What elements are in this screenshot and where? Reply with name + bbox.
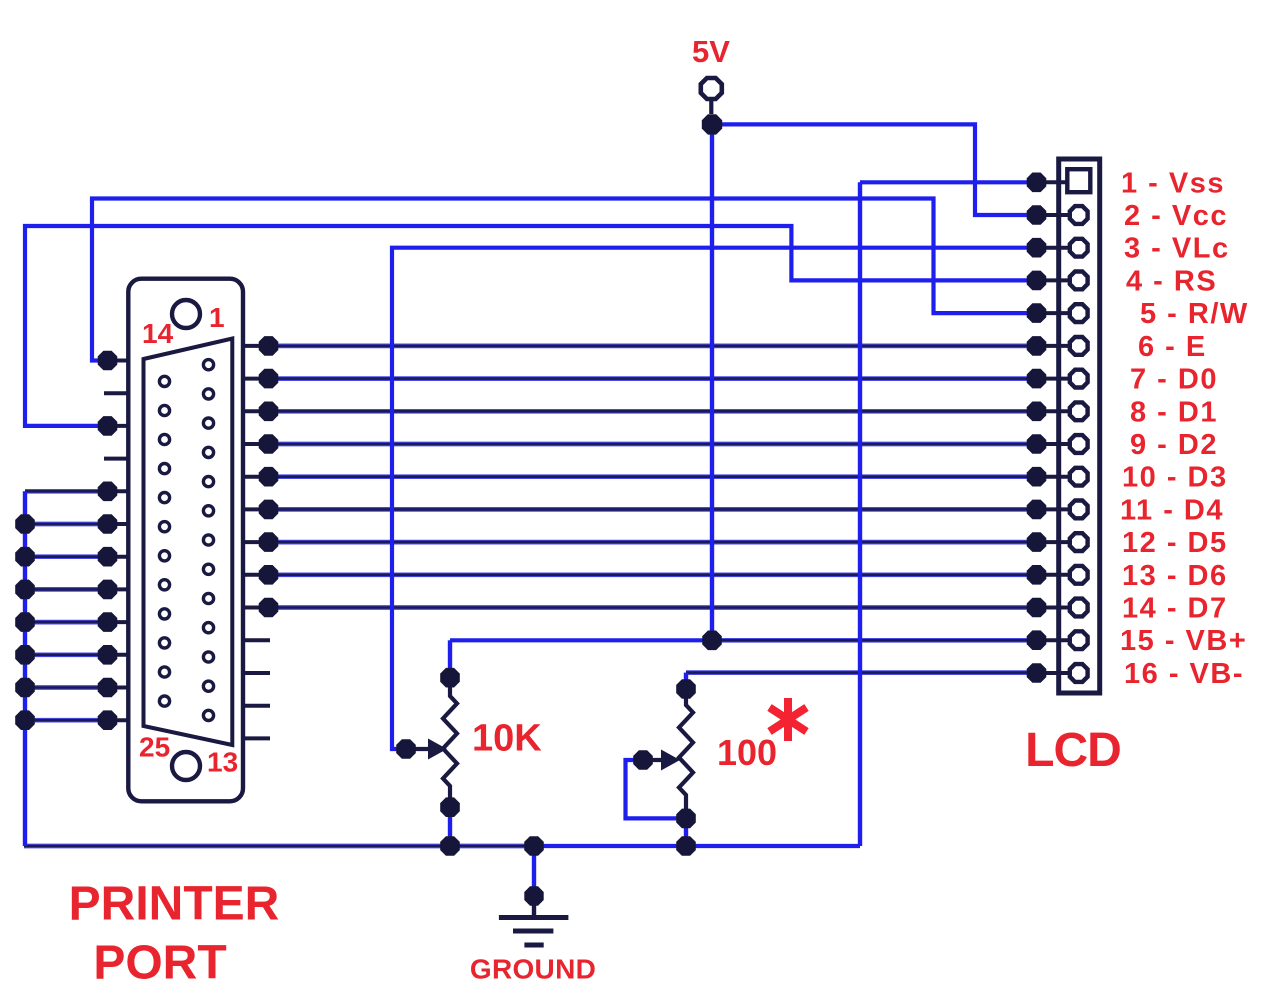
wire VB-: R2 top riser — [684, 673, 688, 689]
connector J1 DB25: pins 14-25 (left column) — [159, 376, 169, 706]
connector J2 LCD header: pads pins 2-16 — [1070, 206, 1088, 682]
wire R/W: DB25 pin 14 up and across to LCD pin 5 — [92, 199, 1037, 361]
wire VB-: 100 pot top to LCD pin 16 (horizontal) — [686, 670, 1037, 675]
svg-text:PRINTER: PRINTER — [69, 878, 280, 931]
junction dot 5V/VB+ node — [702, 631, 722, 651]
net GND: bus stub to DB25 pin 25 — [25, 718, 108, 723]
net GND: vertical from ground rail up to LCD pin 1 Vss — [858, 182, 862, 846]
net GND: bus stub to DB25 pin 18 — [25, 489, 108, 494]
connector J2 LCD header: pin 1 square pad — [1067, 169, 1090, 192]
wire E: DB25 pin 1 to LCD pin 6 — [269, 344, 1037, 349]
svg-text:4 - RS: 4 - RS — [1126, 265, 1217, 297]
svg-text:5V: 5V — [692, 34, 730, 69]
svg-text:14: 14 — [142, 318, 174, 349]
junction dots on R1 10K terminals and wiper — [396, 668, 460, 856]
net GND: dark left part of bottom ground rail — [24, 844, 537, 849]
svg-text:11 - D4: 11 - D4 — [1120, 494, 1224, 526]
svg-text:9 - D2: 9 - D2 — [1130, 429, 1218, 461]
net GND: bus stub to DB25 pin 24 — [25, 685, 108, 690]
junction dots at ground symbol — [524, 836, 544, 906]
wire D4: DB25 pin 6 to LCD pin 11 — [269, 507, 1037, 512]
wire VLc: R1 wiper up and across to LCD pin 3 — [392, 248, 1037, 749]
svg-text:100: 100 — [717, 732, 777, 773]
svg-text:14 - D7: 14 - D7 — [1122, 593, 1228, 625]
wire D5: DB25 pin 7 to LCD pin 12 — [269, 540, 1037, 545]
connector J1 DB25 printer port: pin stubs left — [104, 361, 130, 721]
connector J2 LCD header: pin stub lines — [1037, 182, 1071, 673]
svg-text:7 - D0: 7 - D0 — [1130, 364, 1218, 396]
net GND: bus stub to DB25 pin 21 — [25, 587, 108, 592]
svg-text:8 - D1: 8 - D1 — [1130, 396, 1218, 428]
svg-text:1: 1 — [209, 302, 225, 333]
wire RS: DB25 pin 16 up and across to LCD pin 4 — [25, 226, 1037, 426]
svg-text:PORT: PORT — [93, 937, 226, 990]
net GND: bus stub to DB25 pin 23 — [25, 652, 108, 657]
svg-text:10 - D3: 10 - D3 — [1122, 462, 1228, 494]
net 5V: top rail from 5V terminal to LCD pin 2 Vcc — [712, 124, 1037, 215]
svg-text:3 - VLc: 3 - VLc — [1124, 233, 1230, 265]
junction dots on R2 100 terminals and wiper — [633, 679, 696, 856]
junction dots on left ground bus — [15, 514, 35, 730]
svg-text:13 - D6: 13 - D6 — [1122, 560, 1228, 592]
svg-text:15 - VB+: 15 - VB+ — [1120, 625, 1247, 657]
connector J2 LCD header: body — [1059, 159, 1100, 693]
svg-text:12 - D5: 12 - D5 — [1122, 527, 1228, 559]
5V supply terminal — [701, 78, 722, 114]
net GND: bus stub to DB25 pin 20 — [25, 554, 108, 559]
net GND: bright right part of bottom ground rail — [537, 844, 860, 848]
connector J1 DB25: pins 1-13 (right column) — [203, 360, 213, 721]
net 5V: vertical drop from 5V terminal to VB+ junction — [710, 124, 714, 640]
potentiometer R1 wiper arrow — [406, 739, 447, 760]
wire D7: DB25 pin 9 to LCD pin 14 — [269, 605, 1037, 610]
net GND: left ground bus vertical (DB25 pins 18-25) — [23, 491, 27, 846]
net 5V: riser to potentiometer R1 top — [448, 640, 452, 677]
net GND: R2 bottom lead to rail — [684, 818, 688, 846]
junction dots on DB25 left stubs — [98, 351, 118, 730]
connector J1 DB25: D-shell trapezoid — [144, 339, 233, 746]
svg-text:2 - Vcc: 2 - Vcc — [1124, 200, 1228, 232]
svg-text:LCD: LCD — [1025, 724, 1121, 777]
wire D1: DB25 pin 3 to LCD pin 8 — [269, 409, 1037, 414]
net GND: R1 bottom lead to rail — [448, 807, 452, 846]
potentiometer R2 100 body (zigzag) — [679, 689, 693, 818]
wire VB+ : bright segment from R1 top riser to 5V junction — [450, 638, 712, 642]
connector J1 DB25 printer port: outer shell — [128, 279, 243, 802]
wire D0: DB25 pin 2 to LCD pin 7 — [269, 376, 1037, 381]
net GND: bus stub to DB25 pin 22 — [25, 620, 108, 625]
svg-text:16 - VB-: 16 - VB- — [1124, 658, 1244, 690]
net GND: ground symbol stem (blue) — [532, 846, 536, 896]
svg-text:6 - E: 6 - E — [1138, 331, 1207, 363]
net GND: bus stub to DB25 pin 19 — [25, 522, 108, 527]
wire D3: DB25 pin 5 to LCD pin 10 — [269, 474, 1037, 479]
svg-text:13: 13 — [207, 747, 238, 778]
ground symbol — [499, 904, 569, 945]
connector J1 DB25: mounting hole top — [172, 300, 200, 328]
connector J1 DB25: mounting hole bottom — [172, 752, 200, 780]
wire: R2 wiper shorting loop to bottom terminal — [626, 760, 687, 818]
svg-text:10K: 10K — [472, 718, 542, 760]
wire VB+ : 5V rail to LCD pin 15 (right segment) — [712, 638, 1037, 643]
svg-text:GROUND: GROUND — [470, 954, 596, 985]
net GND: Vss spur to LCD pin 1 — [860, 180, 1037, 184]
junction dot at 5V terminal — [702, 114, 722, 134]
svg-text:5 - R/W: 5 - R/W — [1140, 298, 1249, 330]
svg-text:1 - Vss: 1 - Vss — [1121, 167, 1225, 199]
svg-text:25: 25 — [139, 732, 170, 763]
potentiometer R1 10K body (zigzag) — [443, 678, 457, 808]
asterisk footnote mark — [770, 698, 807, 741]
wire D6: DB25 pin 8 to LCD pin 13 — [269, 572, 1037, 577]
junction dots on DB25 right stubs (pins 1-9) — [259, 336, 279, 617]
potentiometer R2 wiper arrow — [643, 750, 680, 771]
junction dots on LCD pin column — [1027, 173, 1047, 683]
connector J1 DB25 printer port: pin stubs right — [242, 346, 270, 739]
wire D2: DB25 pin 4 to LCD pin 9 — [269, 442, 1037, 447]
